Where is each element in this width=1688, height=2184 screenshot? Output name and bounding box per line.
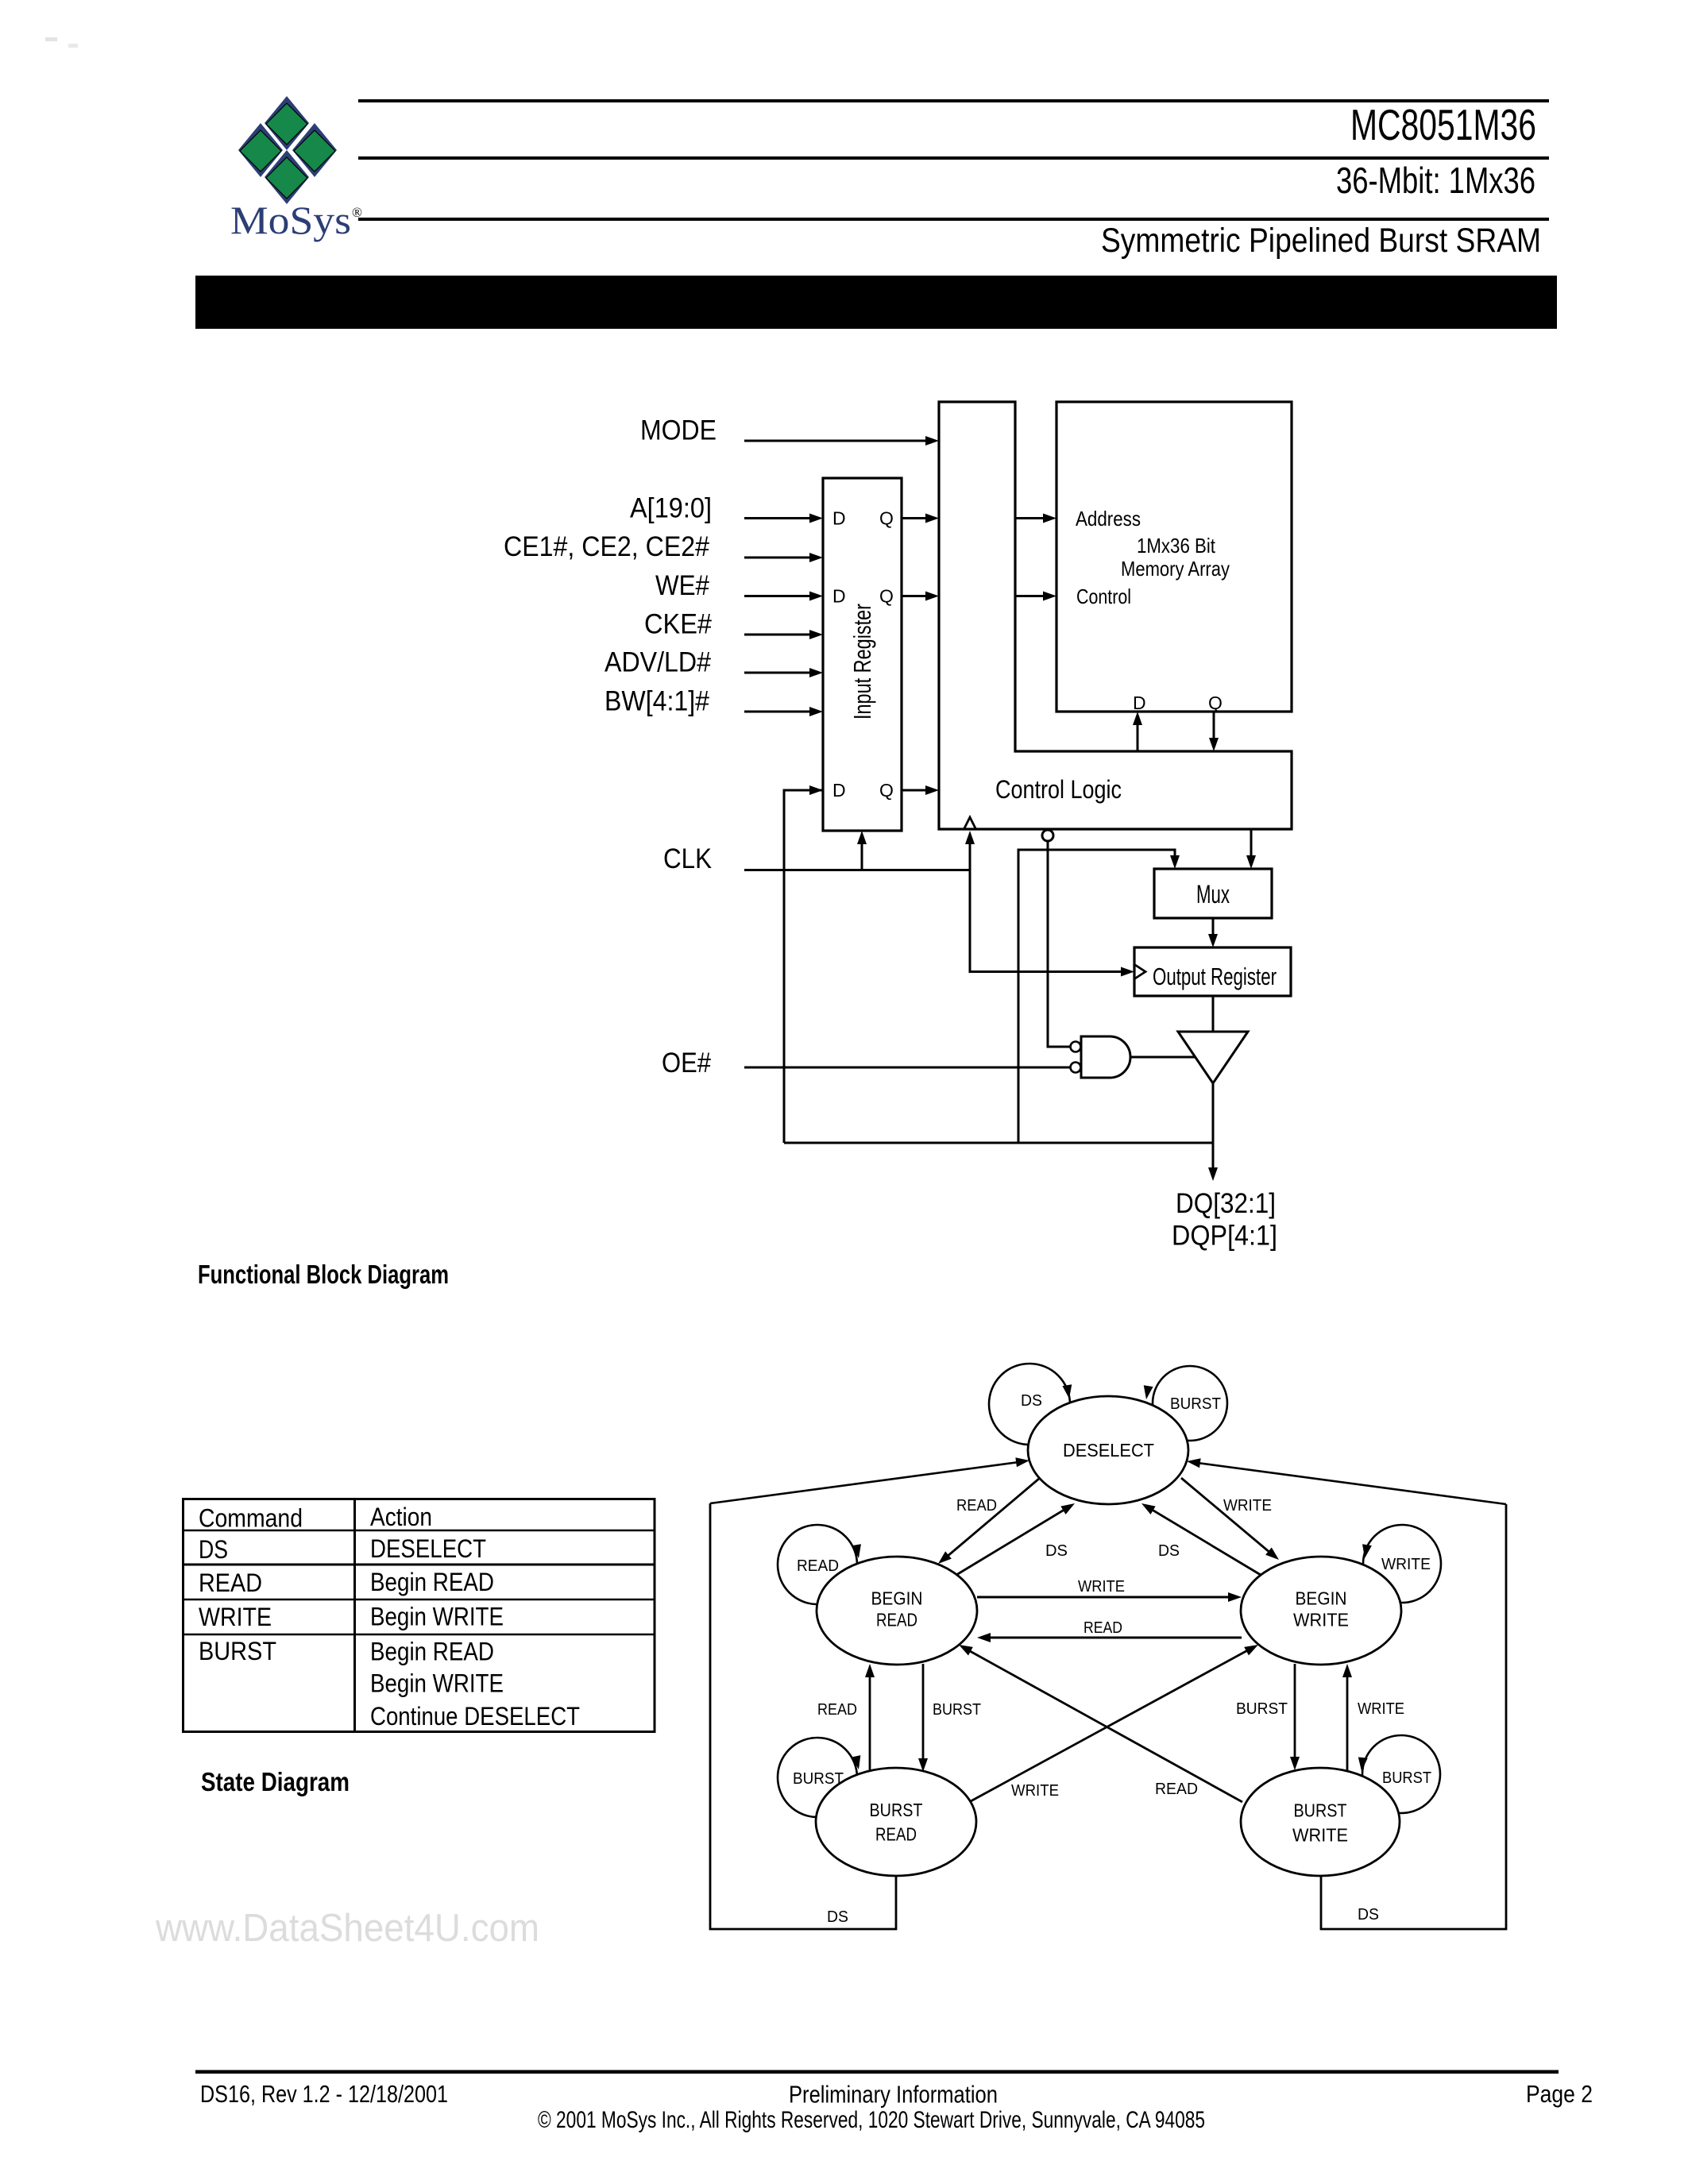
footer rule — [195, 2070, 1559, 2074]
svg-text:Mux: Mux — [1196, 880, 1230, 909]
svg-text:Begin WRITE: Begin WRITE — [370, 1603, 504, 1631]
wire feedback bottom line — [784, 1142, 1213, 1144]
wire inverted enable to NAND — [1048, 841, 1070, 1047]
svg-text:Begin WRITE: Begin WRITE — [370, 1669, 504, 1698]
svg-text:BURST: BURST — [793, 1770, 844, 1788]
wire BW into input register — [744, 711, 818, 713]
svg-text:MC8051M36: MC8051M36 — [1350, 100, 1536, 149]
svg-text:BURST: BURST — [1294, 1800, 1347, 1820]
svg-text:Symmetric Pipelined Burst SRAM: Symmetric Pipelined Burst SRAM — [1101, 222, 1541, 260]
wire CLK to input register clock — [861, 835, 863, 870]
svg-text:WRITE: WRITE — [1011, 1782, 1059, 1800]
svg-text:Output Register: Output Register — [1153, 963, 1277, 990]
svg-text:DS: DS — [1358, 1906, 1379, 1924]
state BURST READ — [816, 1768, 976, 1876]
table frame — [183, 1499, 655, 1732]
wire mux to output register — [1212, 918, 1215, 943]
self-loop WRITE on BEGIN WRITE — [1363, 1525, 1441, 1603]
black title bar — [195, 276, 1557, 329]
svg-text:Preliminary Information: Preliminary Information — [789, 2081, 998, 2109]
svg-text:BURST: BURST — [870, 1800, 923, 1820]
svg-text:MoSys: MoSys — [230, 198, 351, 242]
svg-text:READ: READ — [817, 1701, 857, 1719]
transition BURST READ to BEGIN WRITE (WRITE) — [971, 1647, 1253, 1801]
wire Q1 to control logic — [902, 517, 934, 519]
svg-text:Input Register: Input Register — [848, 604, 876, 720]
svg-text:WRITE: WRITE — [1358, 1700, 1404, 1718]
svg-text:BURST: BURST — [199, 1637, 276, 1665]
svg-text:36-Mbit: 1Mx36: 36-Mbit: 1Mx36 — [1336, 160, 1535, 201]
svg-text:DS: DS — [1158, 1542, 1180, 1560]
svg-text:BURST: BURST — [933, 1701, 981, 1719]
wire A into input register — [744, 517, 818, 519]
wire NAND output to buffer enable — [1130, 1056, 1196, 1059]
svg-text:BURST: BURST — [1382, 1769, 1431, 1787]
tri-state output buffer — [1178, 1032, 1248, 1083]
svg-text:WRITE: WRITE — [1381, 1556, 1431, 1573]
svg-text:DESELECT: DESELECT — [1063, 1440, 1154, 1461]
outer DS path left — [710, 1503, 896, 1929]
self-loop BURST on BURST WRITE — [1362, 1735, 1440, 1813]
self-loop BURST on BURST READ — [778, 1738, 857, 1817]
MoSys logo: right diamond — [292, 123, 337, 177]
svg-text:Memory Array: Memory Array — [1121, 557, 1230, 581]
svg-text:DESELECT: DESELECT — [370, 1534, 486, 1563]
NAND input bubble bottom — [1071, 1063, 1081, 1073]
svg-text:Continue DESELECT: Continue DESELECT — [370, 1702, 580, 1731]
svg-text:D: D — [832, 586, 846, 607]
MoSys logo: top diamond — [265, 96, 309, 150]
svg-text:DS: DS — [1021, 1392, 1042, 1410]
table row line 1 — [183, 1530, 655, 1531]
transition BEGIN WRITE to DESELECT (DS) — [1145, 1506, 1261, 1575]
self-loop arrowhead BURST — [1141, 1385, 1153, 1400]
svg-text:DS: DS — [1045, 1542, 1068, 1560]
svg-text:Begin READ: Begin READ — [370, 1568, 494, 1596]
table column divider — [353, 1499, 356, 1732]
svg-text:MODE: MODE — [640, 415, 717, 446]
wire OE# to NAND — [744, 1067, 1070, 1069]
svg-text:READ: READ — [1083, 1619, 1122, 1637]
wire control to memory address — [1015, 517, 1052, 519]
svg-text:DS: DS — [199, 1535, 228, 1564]
state DESELECT — [1028, 1396, 1188, 1504]
output register block — [1134, 947, 1291, 996]
header rule 1 — [358, 99, 1549, 102]
transition DESELECT to BEGIN READ — [941, 1478, 1040, 1561]
svg-text:Page 2: Page 2 — [1526, 2080, 1593, 2108]
svg-text:BURST: BURST — [1170, 1395, 1221, 1413]
state BURST WRITE — [1241, 1768, 1400, 1876]
svg-text:WRITE: WRITE — [1293, 1610, 1349, 1630]
svg-text:Command: Command — [199, 1504, 303, 1533]
transition BEGIN READ to BURST READ (BURST) — [922, 1664, 925, 1767]
svg-text:WRITE: WRITE — [1078, 1578, 1125, 1596]
svg-text:State Diagram: State Diagram — [201, 1767, 350, 1796]
outer DS path right — [1321, 1504, 1506, 1929]
MoSys logo: bottom diamond — [265, 150, 309, 204]
svg-text:Q: Q — [879, 508, 894, 529]
svg-text:© 2001 MoSys Inc., All Rights: © 2001 MoSys Inc., All Rights Reserved, … — [538, 2107, 1205, 2133]
svg-text:Address: Address — [1076, 507, 1141, 531]
transition BURST WRITE to BEGIN WRITE (WRITE) — [1346, 1669, 1349, 1770]
self-loop BURST on DESELECT — [1153, 1366, 1227, 1441]
state BEGIN READ — [817, 1557, 977, 1665]
input register box U1 — [823, 478, 902, 831]
header rule 2 — [358, 156, 1549, 160]
state BEGIN WRITE — [1241, 1557, 1401, 1665]
memory array block — [1056, 402, 1292, 712]
svg-text:BEGIN: BEGIN — [1296, 1588, 1347, 1609]
svg-text:D: D — [1133, 693, 1146, 713]
self-loop arrowhead DS — [1062, 1384, 1074, 1399]
wire Q2 to control logic — [902, 595, 934, 597]
svg-text:D: D — [832, 780, 846, 801]
svg-text:CLK: CLK — [663, 843, 712, 874]
wire memory Q output — [1213, 712, 1215, 747]
svg-text:READ: READ — [797, 1557, 839, 1575]
svg-text:Action: Action — [370, 1503, 432, 1531]
wire CKE into input register — [744, 634, 818, 636]
svg-text:Control: Control — [1076, 585, 1131, 608]
transition BURST READ to BEGIN READ (READ) — [869, 1669, 871, 1772]
self-loop READ on BEGIN READ — [778, 1525, 857, 1604]
svg-text:READ: READ — [956, 1497, 997, 1515]
svg-text:WE#: WE# — [655, 570, 709, 601]
svg-text:DQ[32:1]: DQ[32:1] — [1176, 1188, 1276, 1219]
wire control to memory control — [1015, 595, 1052, 597]
wire Q3 to control logic — [902, 789, 934, 792]
wire ADV/LD into input register — [744, 672, 818, 674]
transition BURST READ to DESELECT via DS — [710, 1461, 1025, 1503]
wire feedback up to mux left input — [1018, 850, 1175, 1143]
transition BURST WRITE to BEGIN READ (READ) — [963, 1647, 1242, 1802]
output register clock symbol — [1135, 965, 1145, 978]
wire CLK down to output register clock — [970, 870, 1130, 972]
wire memory D input — [1137, 716, 1139, 751]
svg-text:WRITE: WRITE — [1292, 1824, 1348, 1845]
wire output register to buffer — [1212, 996, 1215, 1032]
svg-text:www.DataSheet4U.com: www.DataSheet4U.com — [155, 1907, 539, 1950]
svg-text:READ: READ — [876, 1610, 917, 1630]
svg-text:Q: Q — [879, 780, 894, 801]
svg-text:BW[4:1]#: BW[4:1]# — [605, 686, 709, 717]
control logic block — [939, 402, 1292, 829]
NAND gate G1 — [1081, 1036, 1130, 1078]
svg-text:Begin READ: Begin READ — [370, 1638, 494, 1666]
svg-text:CKE#: CKE# — [644, 609, 712, 640]
control logic clock symbol — [964, 817, 976, 830]
svg-text:Functional Block Diagram: Functional Block Diagram — [198, 1260, 449, 1289]
svg-text:WRITE: WRITE — [199, 1603, 272, 1631]
wire CLK to control logic clock — [969, 835, 971, 870]
svg-text:READ: READ — [199, 1569, 262, 1597]
transition DESELECT to BEGIN WRITE — [1181, 1478, 1276, 1557]
svg-text:DS: DS — [827, 1908, 848, 1926]
transition BEGIN READ to DESELECT (DS) — [956, 1506, 1071, 1575]
wire buffer output to DQ pads — [1212, 1083, 1215, 1176]
svg-text:READ: READ — [875, 1824, 917, 1845]
wire feedback vertical to D3 — [784, 790, 823, 1143]
svg-text:Control Logic: Control Logic — [995, 775, 1122, 804]
MoSys logo: left diamond — [238, 123, 283, 177]
svg-text:CE1#, CE2, CE2#: CE1#, CE2, CE2# — [504, 531, 709, 562]
svg-text:A[19:0]: A[19:0] — [630, 493, 712, 524]
scan artifact top-left — [45, 37, 57, 41]
svg-text:1Mx36 Bit: 1Mx36 Bit — [1137, 534, 1216, 558]
NAND input bubble top — [1071, 1042, 1081, 1052]
svg-text:Q: Q — [1208, 693, 1223, 713]
wire WE into input register — [744, 595, 818, 597]
wire control logic to mux right input — [1250, 829, 1253, 864]
svg-text:OE#: OE# — [662, 1048, 711, 1078]
svg-text:DQP[4:1]: DQP[4:1] — [1172, 1221, 1277, 1252]
svg-text:D: D — [832, 508, 846, 529]
header rule 3 — [358, 218, 1549, 221]
table row line 3 — [183, 1599, 655, 1600]
self-loop DS on DESELECT — [989, 1364, 1070, 1445]
transition BEGIN WRITE to BEGIN READ (READ) — [982, 1637, 1242, 1639]
svg-text:ADV/LD#: ADV/LD# — [605, 647, 711, 678]
inverter bubble under control logic — [1042, 830, 1053, 841]
svg-text:BURST: BURST — [1236, 1700, 1288, 1718]
svg-text:BEGIN: BEGIN — [871, 1588, 923, 1609]
table row line 4 — [183, 1634, 655, 1635]
transition BURST WRITE to DESELECT via DS — [1192, 1462, 1506, 1504]
mux block — [1154, 869, 1272, 918]
transition BEGIN READ to BEGIN WRITE (WRITE) — [977, 1596, 1237, 1599]
wire CLK horizontal — [744, 869, 970, 871]
table row line 2 — [183, 1564, 655, 1566]
wire CE into input register — [744, 557, 818, 559]
wire MODE into control logic — [744, 440, 934, 442]
svg-text:READ: READ — [1155, 1781, 1198, 1798]
svg-text:Q: Q — [879, 586, 894, 607]
svg-text:DS16, Rev 1.2 - 12/18/2001: DS16, Rev 1.2 - 12/18/2001 — [200, 2080, 448, 2108]
transition BEGIN WRITE to BURST WRITE (BURST) — [1294, 1664, 1296, 1765]
svg-text:WRITE: WRITE — [1223, 1497, 1272, 1515]
